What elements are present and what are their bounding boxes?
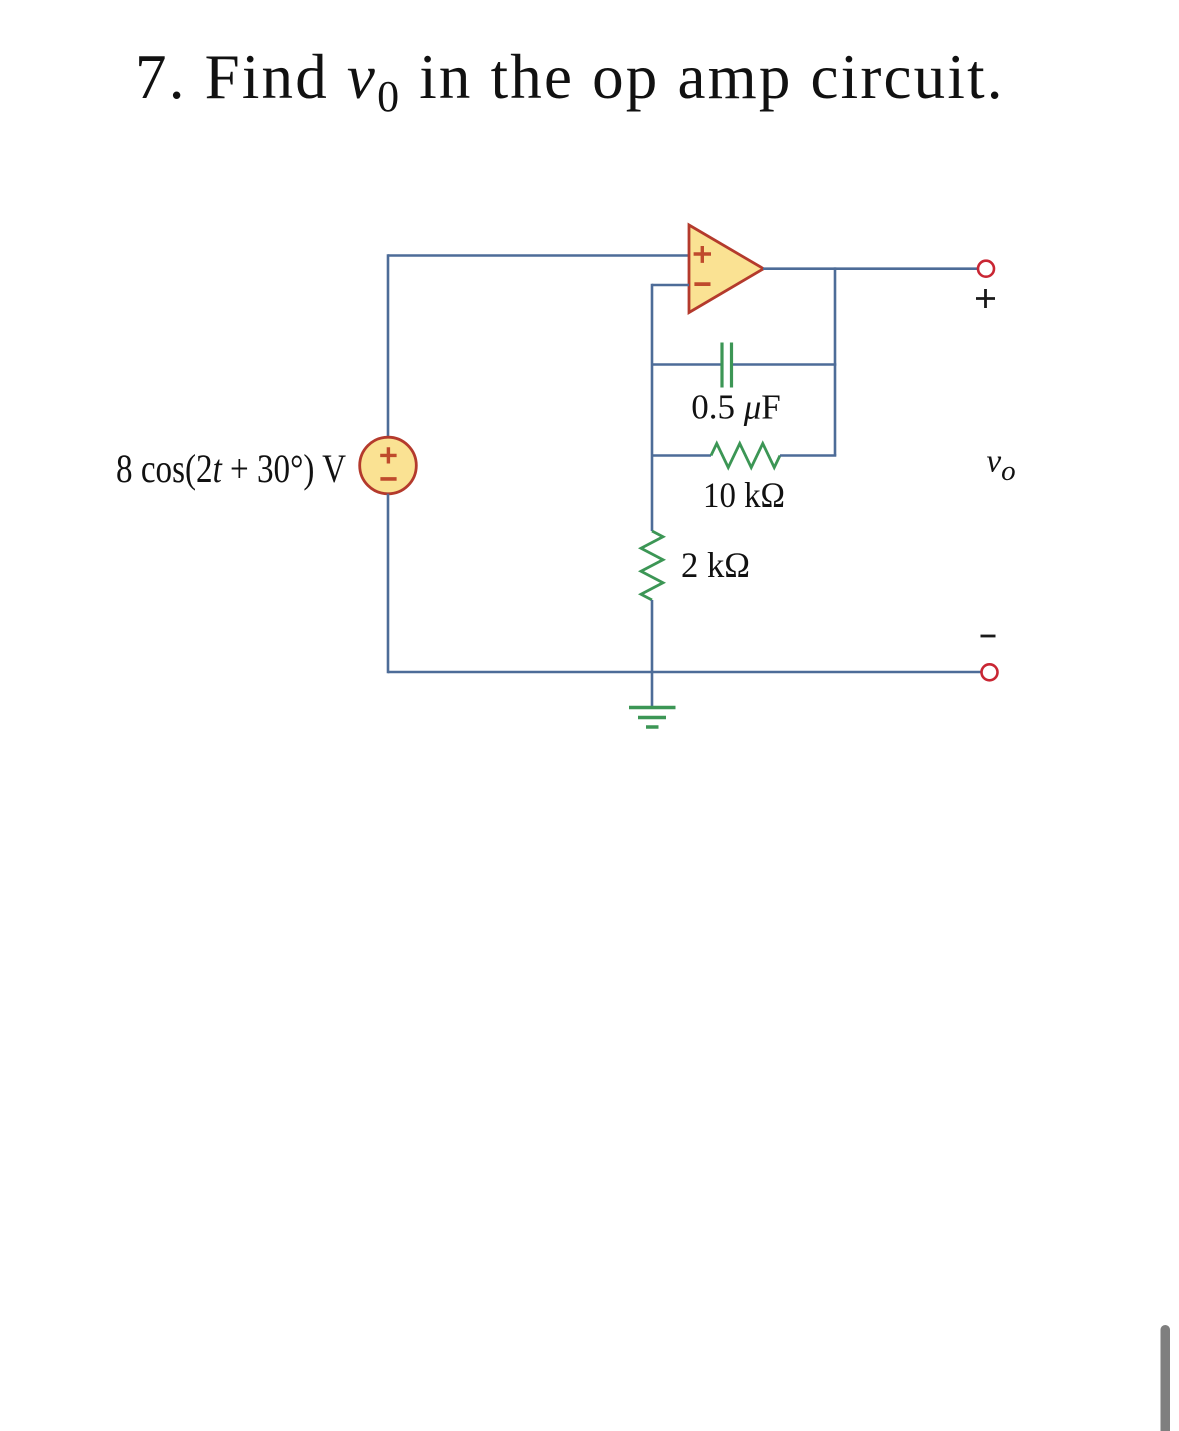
wire bottom [388,671,982,674]
svg-text:10 kΩ: 10 kΩ [703,475,785,515]
wire feedback left vertical [651,284,654,531]
op-amp plus input marker [694,246,711,263]
wire capacitor left [652,363,721,366]
ground [629,708,676,728]
capacitor C1 0.5uF plates [722,343,732,388]
svg-text:7. Find v0 in the op amp circu: 7. Find v0 in the op amp circuit. [135,42,1005,121]
wire output [763,267,978,270]
resistor R2 2k zigzag [641,531,663,600]
wire 10k left [652,454,711,457]
label minus output [981,635,996,638]
wire 10k right [780,454,836,457]
source plus sign [380,447,396,463]
wire ground stub [651,672,654,708]
op-amp minus input marker [694,282,710,286]
wire top (source to op-amp + input) [388,254,688,257]
op-amp U1 [689,225,764,313]
svg-text:0.5 μF: 0.5 μF [691,388,781,427]
wire below 2k [651,600,654,672]
label plus output [976,289,995,308]
resistor R1 10k zigzag [711,444,780,468]
terminal top output [978,261,994,277]
wire right vertical (output to feedback) [834,267,837,455]
svg-text:vo: vo [987,444,1016,488]
wire left vertical lower (source circle to bottom wire) [387,494,390,674]
source minus sign [380,477,396,481]
wire capacitor right [733,363,836,366]
voltage source VS1 8cos(2t+30°)V [360,437,417,494]
wire left vertical upper (source circle to top wire) [387,254,390,438]
svg-text:2 kΩ: 2 kΩ [681,545,750,585]
terminal bottom output [982,664,998,680]
scrollbar thumb [1161,1325,1171,1431]
wire minus input stub [652,284,689,287]
svg-text:8 cos(2t + 30°) V: 8 cos(2t + 30°) V [116,446,346,491]
